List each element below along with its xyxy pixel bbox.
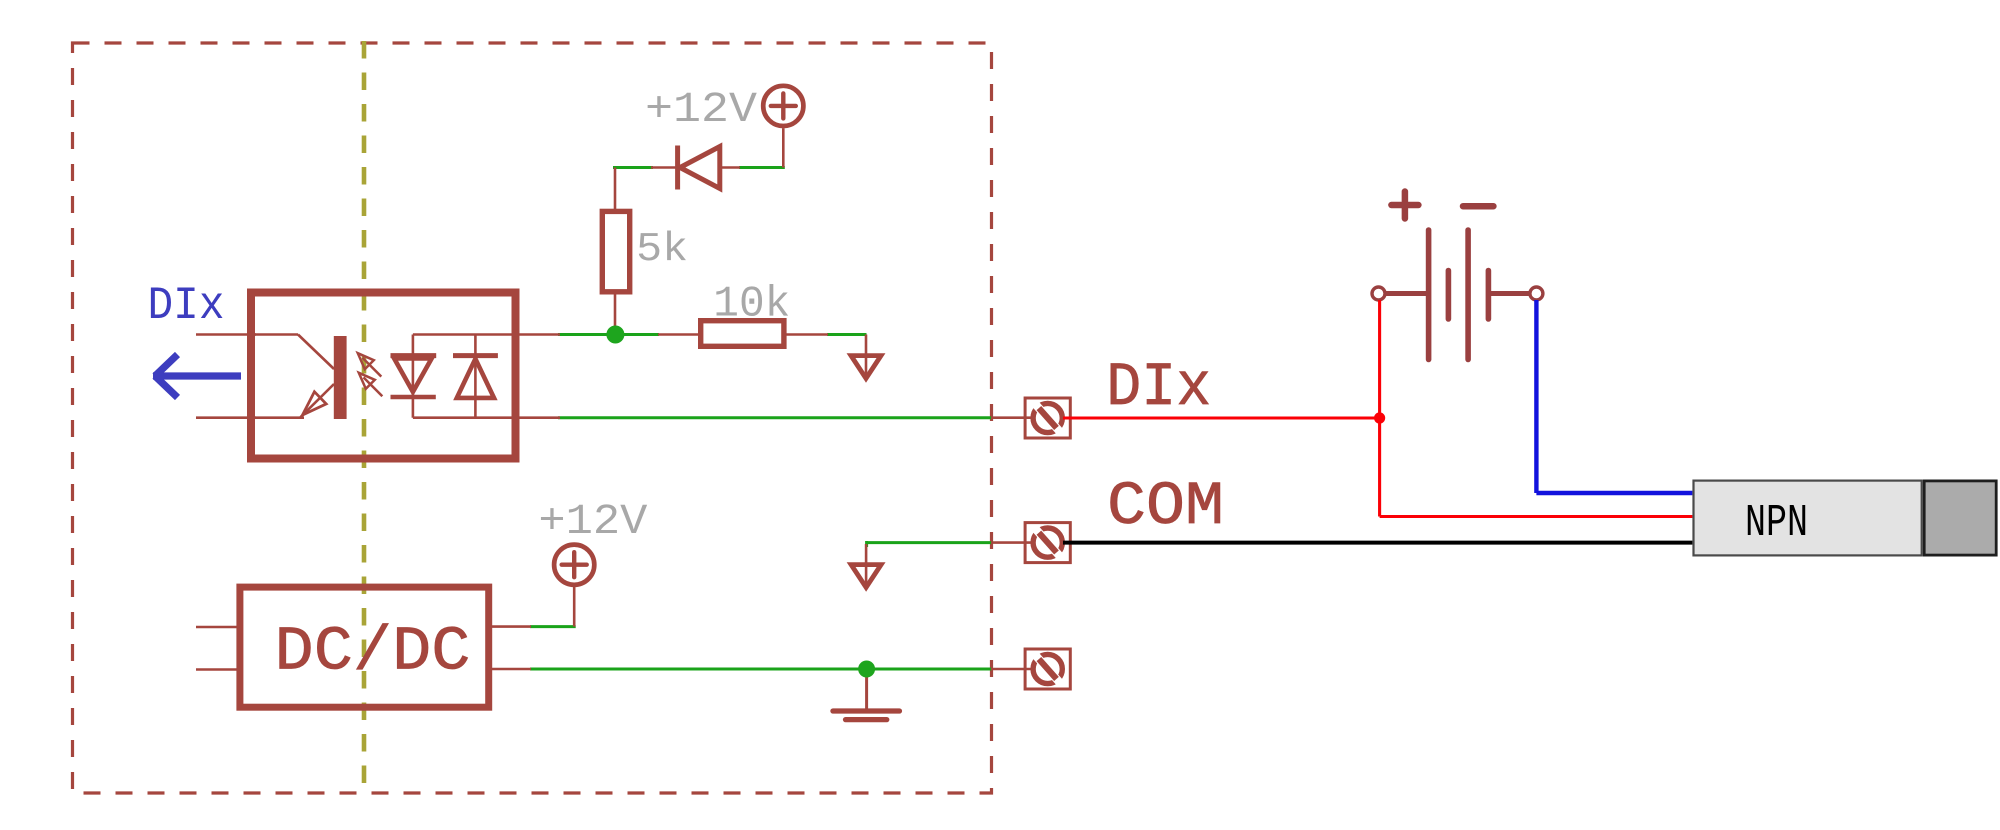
DC/DC converter box bbox=[240, 587, 489, 707]
screw terminal GND bbox=[1025, 649, 1070, 689]
red wire DIx net bbox=[1063, 300, 1692, 517]
svg-text:COM: COM bbox=[1107, 473, 1224, 542]
pin +12V circle to diode bbox=[782, 128, 785, 167]
terminal pins at border bbox=[991, 418, 1031, 669]
junction dot node top rail bbox=[606, 326, 624, 344]
svg-text:DIx: DIx bbox=[1106, 354, 1211, 423]
resistor 10k bbox=[701, 321, 784, 347]
wire net top rail (node between 5k, 10k, opto) bbox=[530, 168, 992, 670]
resistor 10k pins bbox=[658, 333, 828, 336]
blue wire battery minus to NPN bbox=[1536, 300, 1692, 493]
back-to-back diodes inside opto bbox=[413, 335, 512, 418]
supply +12V circle lower bbox=[554, 545, 594, 585]
svg-text:10k: 10k bbox=[713, 280, 790, 330]
battery symbol bbox=[1372, 192, 1543, 360]
NPN sensor body bbox=[1694, 481, 1922, 556]
black wire COM to NPN bbox=[1063, 541, 1692, 545]
wire DC/DC gnd output row bbox=[530, 668, 992, 671]
svg-text:NPN: NPN bbox=[1745, 498, 1808, 549]
blue direction arrow bbox=[153, 355, 241, 398]
maroon drawing layer bbox=[196, 86, 1031, 720]
dashed module boundary frame bbox=[73, 43, 992, 793]
battery terminal circles bbox=[1372, 287, 1385, 300]
wire COM ground stub bbox=[865, 541, 868, 547]
phototransistor inside opto bbox=[255, 335, 334, 418]
svg-text:+12V: +12V bbox=[645, 85, 757, 134]
wire DC/DC +12V pin bbox=[530, 625, 576, 628]
supply +12V circle top bbox=[763, 86, 803, 126]
reference arrow under 10k bbox=[865, 335, 868, 381]
screw terminal COM bbox=[1025, 523, 1070, 563]
emitter arrowhead bbox=[303, 392, 327, 415]
diode D1 bbox=[678, 146, 720, 190]
screw terminal DIx bbox=[1025, 398, 1070, 438]
battery minus label bbox=[1463, 203, 1493, 210]
resistor 5k bottom pin bbox=[614, 293, 617, 335]
resistor 5k bbox=[602, 211, 629, 291]
optocoupler box U1 bbox=[251, 293, 516, 459]
svg-text:DIx: DIx bbox=[148, 280, 225, 332]
svg-text:5k: 5k bbox=[636, 227, 688, 273]
junction dot DC/DC output bbox=[858, 661, 875, 678]
isolation barrier dashed line bbox=[362, 41, 367, 797]
NPN sensor cable end bbox=[1924, 481, 1996, 555]
ground symbol under DC/DC output bbox=[865, 669, 868, 709]
svg-text:+12V: +12V bbox=[538, 497, 647, 546]
wire opto bottom to DIx terminal bbox=[558, 416, 992, 419]
battery plus label bbox=[1391, 192, 1493, 219]
opto pins left bbox=[196, 335, 560, 418]
light arrows bbox=[358, 353, 383, 396]
reference arrow under COM wire bbox=[865, 544, 868, 590]
wire COM row bbox=[867, 541, 992, 544]
svg-text:DC/DC: DC/DC bbox=[275, 617, 471, 688]
diode D1 pins bbox=[615, 168, 740, 211]
red junction dot bbox=[1374, 412, 1385, 423]
wire diode row bbox=[613, 166, 653, 169]
DC/DC pins bbox=[196, 587, 574, 670]
